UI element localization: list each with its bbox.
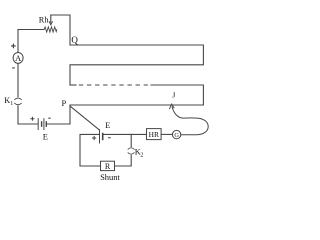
svg-text:HR: HR bbox=[149, 130, 159, 139]
svg-text:E: E bbox=[105, 120, 110, 130]
svg-text:E: E bbox=[43, 132, 48, 142]
svg-text:Shunt: Shunt bbox=[100, 172, 120, 182]
svg-text:P: P bbox=[62, 98, 67, 108]
svg-text:R: R bbox=[105, 162, 111, 171]
svg-text:2: 2 bbox=[140, 152, 143, 158]
svg-text:1: 1 bbox=[10, 101, 13, 107]
svg-text:Rh: Rh bbox=[39, 16, 50, 25]
svg-text:J: J bbox=[172, 90, 175, 99]
svg-text:A: A bbox=[15, 54, 21, 63]
svg-text:G: G bbox=[174, 132, 179, 139]
svg-text:Q: Q bbox=[71, 35, 78, 45]
